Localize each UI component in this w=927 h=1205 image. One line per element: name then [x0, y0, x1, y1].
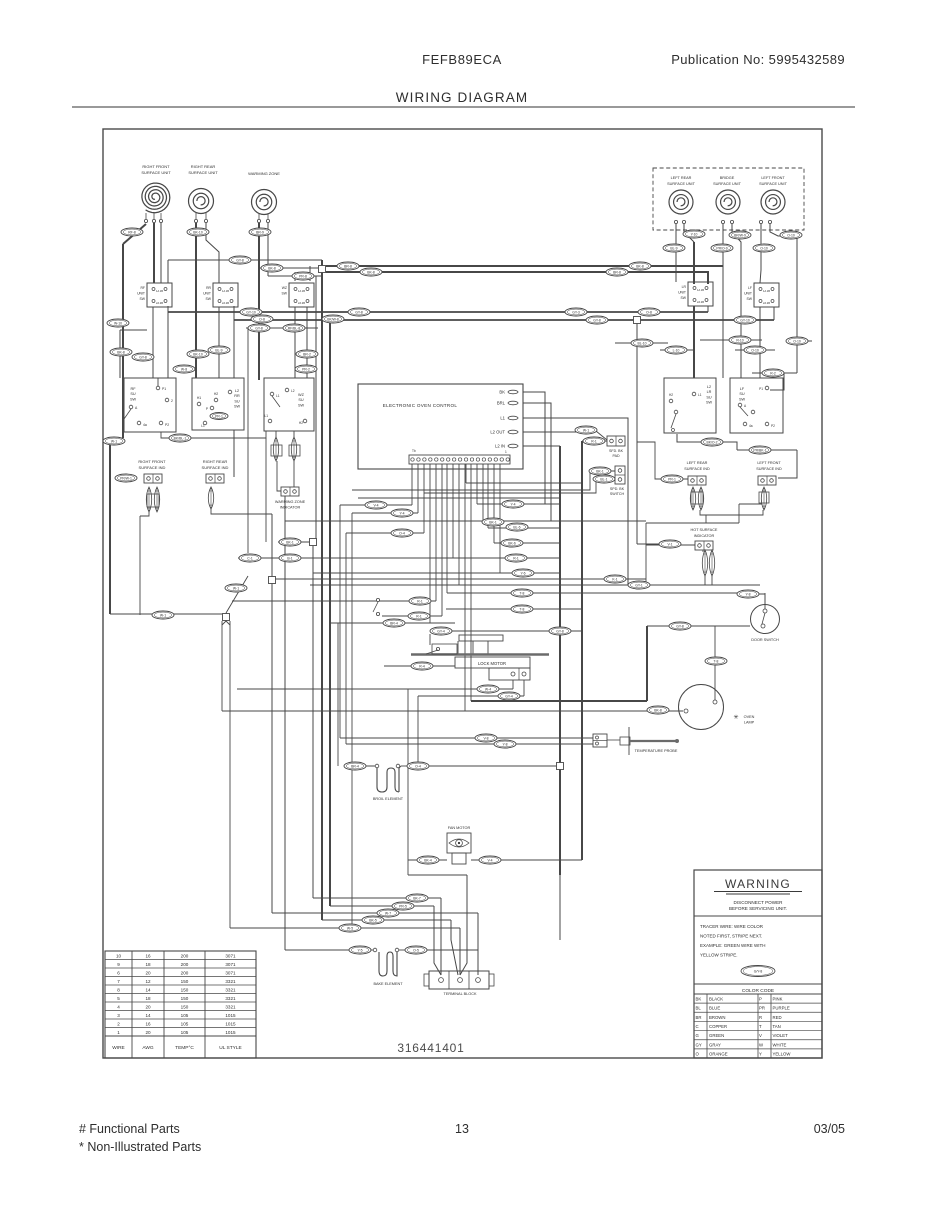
wire	[352, 512, 418, 514]
wire	[660, 349, 694, 351]
wire	[152, 307, 154, 378]
svg-text:SURFACE IND: SURFACE IND	[139, 465, 166, 470]
coil RF terminals	[144, 213, 162, 223]
wire	[429, 464, 431, 623]
motor LOCK MOTOR	[373, 598, 549, 680]
svg-text:BR-8: BR-8	[344, 264, 352, 268]
diagram border frame	[103, 129, 822, 1058]
svg-text:105: 105	[181, 1022, 189, 1027]
svg-text:SW: SW	[140, 297, 146, 301]
svg-text:GY-8: GY-8	[139, 355, 147, 359]
wire	[221, 621, 223, 711]
svg-text:16: 16	[145, 954, 151, 959]
wire	[230, 927, 460, 929]
wire label BK-1	[482, 518, 504, 526]
svg-text:VIOLET: VIOLET	[773, 1033, 789, 1038]
svg-text:B-1: B-1	[287, 556, 292, 560]
wire	[246, 327, 318, 329]
wire	[637, 442, 688, 479]
wire	[735, 349, 775, 351]
svg-text:TERMINAL BLOCK: TERMINAL BLOCK	[444, 992, 477, 996]
wire	[110, 438, 123, 444]
wire label R-1	[505, 554, 527, 562]
svg-text:✳: ✳	[733, 714, 738, 721]
svg-text:3321: 3321	[225, 988, 236, 993]
svg-text:9: 9	[117, 962, 120, 967]
wire label GY-8	[229, 256, 251, 264]
svg-text:4a: 4a	[143, 423, 147, 427]
svg-text:O-8: O-8	[646, 310, 652, 314]
wire	[293, 461, 295, 488]
LF indicator socket	[759, 492, 769, 503]
svg-text:FAN MOTOR: FAN MOTOR	[448, 826, 471, 830]
wire	[226, 576, 248, 613]
svg-text:SW: SW	[706, 401, 713, 405]
wire label W-7	[377, 909, 399, 917]
wire	[470, 464, 472, 701]
module SFD BK PAD	[607, 436, 625, 458]
wire label PR/BK-1	[749, 446, 771, 454]
svg-text:20: 20	[145, 1005, 151, 1010]
wire	[752, 372, 797, 374]
wire	[446, 608, 582, 610]
wire	[218, 307, 220, 378]
wire	[739, 503, 766, 505]
wire	[167, 306, 169, 312]
svg-text:GY-10: GY-10	[246, 310, 256, 314]
svg-text:LOCK MOTOR: LOCK MOTOR	[478, 661, 506, 666]
svg-text:L2: L2	[707, 385, 711, 389]
wire label GY-10	[240, 308, 262, 316]
svg-text:Y-4: Y-4	[400, 511, 405, 515]
wire label GY-1	[628, 581, 650, 589]
wire	[786, 340, 812, 342]
svg-text:K-1: K-1	[612, 577, 617, 581]
wire label R-10	[729, 336, 751, 344]
wire label GY-4	[430, 627, 452, 635]
wire label GY-3	[565, 308, 587, 316]
wire	[358, 497, 560, 499]
indicator WARMING ZONE 2	[291, 437, 296, 461]
svg-text:L1: L1	[264, 414, 268, 418]
svg-text:SU: SU	[234, 399, 240, 403]
svg-text:RF/BL-8: RF/BL-8	[288, 326, 301, 330]
module ELECTRONIC OVEN CONTROL	[358, 384, 523, 469]
svg-text:W-8: W-8	[181, 367, 187, 371]
wire	[153, 223, 155, 283]
wire	[407, 689, 409, 861]
wire label GY-8	[586, 316, 608, 324]
wire	[321, 260, 323, 920]
svg-text:R-1: R-1	[417, 599, 423, 603]
svg-text:SU: SU	[706, 395, 712, 399]
svg-text:V-4: V-4	[487, 858, 492, 862]
wire	[693, 306, 695, 378]
wire	[494, 542, 560, 544]
wire	[758, 594, 765, 605]
svg-text:PR-5: PR-5	[399, 904, 407, 908]
svg-text:12: 12	[145, 979, 151, 984]
wire label BK-7	[406, 894, 428, 902]
wire	[337, 623, 339, 766]
wire	[339, 505, 341, 738]
wire	[401, 765, 407, 767]
wire	[523, 445, 560, 447]
wire label BL-10	[631, 339, 653, 347]
svg-text:105: 105	[181, 1030, 189, 1035]
wire	[770, 373, 784, 390]
svg-text:FEFB89ECA: FEFB89ECA	[422, 52, 502, 67]
svg-text:L2 OUT: L2 OUT	[490, 430, 505, 435]
svg-text:Y-6: Y-6	[521, 571, 526, 575]
table wire gauge	[105, 951, 256, 1058]
wire	[315, 276, 317, 546]
wire	[233, 307, 235, 378]
wire label BK-5	[362, 916, 384, 924]
svg-text:BL-9: BL-9	[215, 348, 222, 352]
svg-text:PURPLE: PURPLE	[773, 1006, 790, 1011]
svg-text:WZ: WZ	[282, 286, 287, 290]
wire	[581, 441, 583, 860]
wire	[222, 621, 226, 625]
wire	[265, 438, 267, 542]
EOC pin L2 OUT	[490, 430, 518, 435]
svg-text:1015: 1015	[225, 1030, 236, 1035]
svg-text:L1: L1	[276, 394, 280, 398]
svg-text:150: 150	[181, 988, 189, 993]
wire label O-10	[780, 231, 802, 239]
wire	[226, 621, 230, 625]
indicator RIGHT FRONT SURFACE IND 2	[154, 487, 159, 512]
svg-text:HOT SURFACE: HOT SURFACE	[691, 528, 718, 532]
heading underline	[72, 106, 855, 108]
svg-text:W-4: W-4	[485, 687, 491, 691]
svg-text:BK-4: BK-4	[424, 858, 432, 862]
svg-text:BK-6: BK-6	[508, 541, 516, 545]
wire	[382, 615, 442, 617]
wire label BR-2	[296, 350, 318, 358]
wire label BK-1	[589, 467, 611, 475]
svg-text:BK/W-8: BK/W-8	[327, 317, 339, 321]
svg-text:Y-10: Y-10	[691, 232, 698, 236]
svg-text:RF: RF	[140, 286, 145, 290]
wire label BL-1	[593, 475, 615, 483]
wire	[238, 557, 560, 559]
svg-text:BRL: BRL	[497, 401, 506, 406]
svg-text:RR: RR	[234, 394, 240, 398]
svg-text:SU: SU	[739, 392, 745, 396]
svg-text:R-1: R-1	[591, 439, 597, 443]
svg-text:BRIDGE: BRIDGE	[720, 176, 735, 180]
wire	[326, 272, 708, 284]
svg-text:BL: BL	[696, 1006, 702, 1011]
connector LEFT REAR SURFACE IND	[688, 476, 706, 485]
wire	[596, 431, 607, 440]
svg-text:H2: H2	[669, 393, 673, 397]
svg-text:SURFACE IND: SURFACE IND	[202, 465, 229, 470]
panel WARNING	[694, 870, 822, 1058]
svg-text:RIGHT FRONT: RIGHT FRONT	[138, 459, 166, 464]
probe TEMPERATURE PROBE	[593, 727, 679, 755]
wire	[306, 307, 308, 378]
svg-text:SURFACE UNIT: SURFACE UNIT	[759, 182, 788, 186]
svg-text:Y-4: Y-4	[511, 502, 516, 506]
svg-text:LR: LR	[682, 285, 687, 289]
warming indicator sockets	[271, 445, 300, 456]
wire	[384, 665, 455, 667]
svg-text:BK-8: BK-8	[367, 270, 375, 274]
svg-text:LEFT FRONT: LEFT FRONT	[761, 176, 785, 180]
indicator LEFT REAR SURFACE IND	[690, 487, 695, 510]
svg-text:BL-9: BL-9	[670, 246, 677, 250]
svg-text:14: 14	[145, 1013, 151, 1018]
wire	[700, 339, 762, 341]
wire	[313, 572, 560, 574]
svg-text:4: 4	[117, 1005, 120, 1010]
svg-text:BK: BK	[696, 997, 702, 1002]
switch RF UNIT SW	[137, 283, 172, 307]
svg-text:5: 5	[117, 996, 120, 1001]
wire label Y-8	[494, 740, 516, 748]
wire	[330, 905, 434, 907]
svg-text:20: 20	[145, 1030, 151, 1035]
svg-text:7: 7	[117, 979, 120, 984]
wire label Y-4	[391, 509, 413, 517]
svg-text:BR-9: BR-9	[256, 230, 264, 234]
wire	[646, 544, 697, 546]
wire	[109, 444, 111, 614]
svg-text:LF: LF	[740, 387, 745, 391]
svg-text:BK-8: BK-8	[268, 266, 276, 270]
wire label BR/W-9	[729, 231, 751, 239]
wire	[340, 737, 593, 739]
svg-text:O-10: O-10	[760, 246, 768, 250]
svg-text:SW: SW	[739, 397, 746, 401]
svg-text:O-4: O-4	[415, 764, 421, 768]
wire	[764, 593, 766, 611]
junction node C	[269, 577, 276, 584]
junction node F	[557, 763, 564, 770]
wire	[482, 464, 484, 521]
wire	[488, 527, 560, 529]
svg-text:T: T	[759, 1024, 762, 1029]
wire	[559, 446, 561, 875]
wire label BK-1	[279, 538, 301, 546]
wire	[161, 431, 266, 438]
svg-text:L2: L2	[291, 389, 295, 393]
svg-text:14: 14	[145, 988, 151, 993]
svg-text:# Functional Parts: # Functional Parts	[79, 1122, 180, 1136]
wire label RF/BL-8	[283, 324, 305, 332]
svg-text:PR/W-1: PR/W-1	[120, 476, 132, 480]
wire	[677, 434, 737, 450]
wire	[446, 464, 448, 593]
svg-text:O-5: O-5	[413, 948, 419, 952]
wire	[195, 223, 197, 378]
wire label V-1	[659, 540, 681, 548]
wire	[329, 320, 331, 906]
svg-text:6: 6	[117, 971, 120, 976]
svg-text:Y-8: Y-8	[503, 742, 508, 746]
wire	[294, 307, 296, 378]
svg-text:LF: LF	[748, 286, 752, 290]
wire	[471, 700, 647, 702]
wire label BK-8	[647, 706, 669, 714]
wire	[411, 464, 413, 505]
wire	[346, 532, 424, 534]
svg-text:V: V	[759, 1033, 762, 1038]
svg-text:V-4: V-4	[373, 503, 378, 507]
svg-text:UNIT: UNIT	[203, 291, 211, 295]
svg-text:BK-8: BK-8	[636, 264, 644, 268]
svg-text:UNIT: UNIT	[678, 290, 686, 294]
wire	[352, 471, 615, 490]
svg-text:Y-5: Y-5	[358, 948, 363, 952]
wire	[206, 223, 219, 283]
wire	[313, 897, 441, 899]
wire	[345, 533, 347, 744]
wire label PR-2	[295, 365, 317, 373]
wire label Y-5	[349, 946, 371, 954]
svg-text:BL-10: BL-10	[637, 341, 646, 345]
wire	[737, 449, 797, 451]
wire	[234, 319, 774, 321]
coil WARMING ZONE	[252, 190, 277, 215]
svg-text:TRACER WIRE: WIRE COLOR: TRACER WIRE: WIRE COLOR	[700, 924, 764, 929]
svg-text:L2 IN: L2 IN	[495, 444, 505, 449]
svg-text:O-10: O-10	[751, 348, 759, 352]
svg-text:T-8: T-8	[520, 607, 525, 611]
wire label Y-6	[512, 569, 534, 577]
wire label BK-8	[629, 262, 651, 270]
wire label V-4	[365, 501, 387, 509]
wire label R-1	[408, 612, 430, 620]
wire	[458, 464, 460, 585]
wire label GY-8	[348, 308, 370, 316]
wire label R-1	[583, 437, 605, 445]
svg-text:1A 1B: 1A 1B	[763, 289, 770, 293]
svg-text:OVEN: OVEN	[744, 715, 755, 719]
svg-text:T-8: T-8	[520, 591, 525, 595]
svg-text:GY-1: GY-1	[635, 583, 643, 587]
svg-text:BK/BL-1: BK/BL-1	[174, 436, 187, 440]
svg-text:WARMING ZONE: WARMING ZONE	[275, 500, 306, 504]
svg-text:SPD. BK: SPD. BK	[610, 487, 625, 491]
LR indicator socket	[691, 492, 703, 504]
wire	[371, 949, 375, 951]
svg-text:BLACK: BLACK	[709, 997, 723, 1002]
wire	[340, 504, 412, 506]
wire label GY-8	[248, 324, 270, 332]
svg-text:Tb: Tb	[412, 449, 416, 453]
wire	[408, 859, 447, 861]
svg-text:RED: RED	[773, 1015, 782, 1020]
wire label BK-6	[501, 539, 523, 547]
svg-text:UL STYLE: UL STYLE	[219, 1045, 241, 1051]
svg-text:ELECTRONIC OVEN CONTROL: ELECTRONIC OVEN CONTROL	[383, 403, 458, 408]
connector WARMING ZONE INDICATOR	[281, 487, 299, 496]
heater BROIL ELEMENT	[375, 764, 401, 792]
svg-text:H1: H1	[197, 396, 201, 400]
svg-text:1015: 1015	[225, 1022, 236, 1027]
svg-text:150: 150	[181, 1005, 189, 1010]
switch RR SU SW	[192, 378, 244, 430]
wire label PR/O-9	[711, 244, 733, 252]
wire	[477, 503, 560, 505]
svg-text:BK-5: BK-5	[369, 918, 377, 922]
wire	[344, 765, 375, 767]
svg-text:SFD. BK: SFD. BK	[609, 449, 624, 453]
wire	[451, 920, 458, 975]
wire label O-10	[786, 337, 808, 345]
svg-text:Y: Y	[759, 1051, 762, 1056]
svg-text:BK-10: BK-10	[193, 352, 203, 356]
svg-text:P: P	[206, 407, 208, 411]
svg-text:200: 200	[181, 954, 189, 959]
svg-text:L1: L1	[698, 393, 702, 397]
indicator RIGHT FRONT SURFACE IND	[146, 487, 151, 512]
wire	[351, 513, 353, 928]
svg-text:BK/O-2: BK/O-2	[706, 440, 717, 444]
wire	[732, 224, 741, 378]
svg-text:BR/W-9: BR/W-9	[734, 233, 746, 237]
wire	[167, 260, 169, 283]
wire	[796, 236, 798, 373]
wire	[465, 464, 467, 483]
svg-text:GY-10: GY-10	[740, 318, 750, 322]
wire	[140, 512, 149, 516]
wire	[738, 504, 740, 523]
svg-text:SWITCH: SWITCH	[610, 492, 625, 496]
svg-text:BK-8: BK-8	[654, 708, 662, 712]
wire label T-8	[511, 605, 533, 613]
svg-text:INDICATOR: INDICATOR	[694, 534, 715, 538]
wire	[646, 522, 739, 524]
wire	[430, 630, 582, 632]
wire label O-10	[744, 346, 766, 354]
svg-text:PR-1: PR-1	[215, 414, 223, 418]
wire label Y-4	[502, 500, 524, 508]
svg-text:GY-4: GY-4	[505, 694, 513, 698]
wire label GY-4	[498, 692, 520, 700]
wire	[423, 464, 425, 533]
wire	[523, 403, 551, 521]
wire	[330, 622, 455, 624]
wire	[447, 592, 758, 594]
wire	[122, 244, 124, 438]
svg-text:SW: SW	[681, 296, 687, 300]
svg-text:1A 1B: 1A 1B	[697, 288, 704, 292]
svg-text:R-4: R-4	[419, 664, 425, 668]
svg-text:L1: L1	[201, 424, 205, 428]
svg-text:YELLOW STRIPE.: YELLOW STRIPE.	[700, 953, 738, 958]
svg-text:DOOR SWITCH: DOOR SWITCH	[751, 638, 779, 642]
indicator WARMING ZONE 1	[273, 437, 278, 461]
wire label PR/W-1	[115, 474, 137, 482]
svg-text:2A 2B: 2A 2B	[763, 301, 770, 305]
wire	[704, 576, 706, 585]
svg-text:PR-8: PR-8	[299, 274, 307, 278]
svg-text:P2: P2	[771, 424, 775, 428]
svg-text:PR-2: PR-2	[302, 367, 310, 371]
svg-text:H2: H2	[214, 392, 218, 396]
svg-text:1: 1	[505, 450, 507, 454]
wire label PR-1	[210, 413, 228, 420]
wire label Y-8	[737, 590, 759, 598]
wire label GY-8	[549, 627, 571, 635]
svg-text:R-10: R-10	[736, 338, 743, 342]
svg-text:BEFORE SERVICING UNIT.: BEFORE SERVICING UNIT.	[729, 906, 787, 911]
